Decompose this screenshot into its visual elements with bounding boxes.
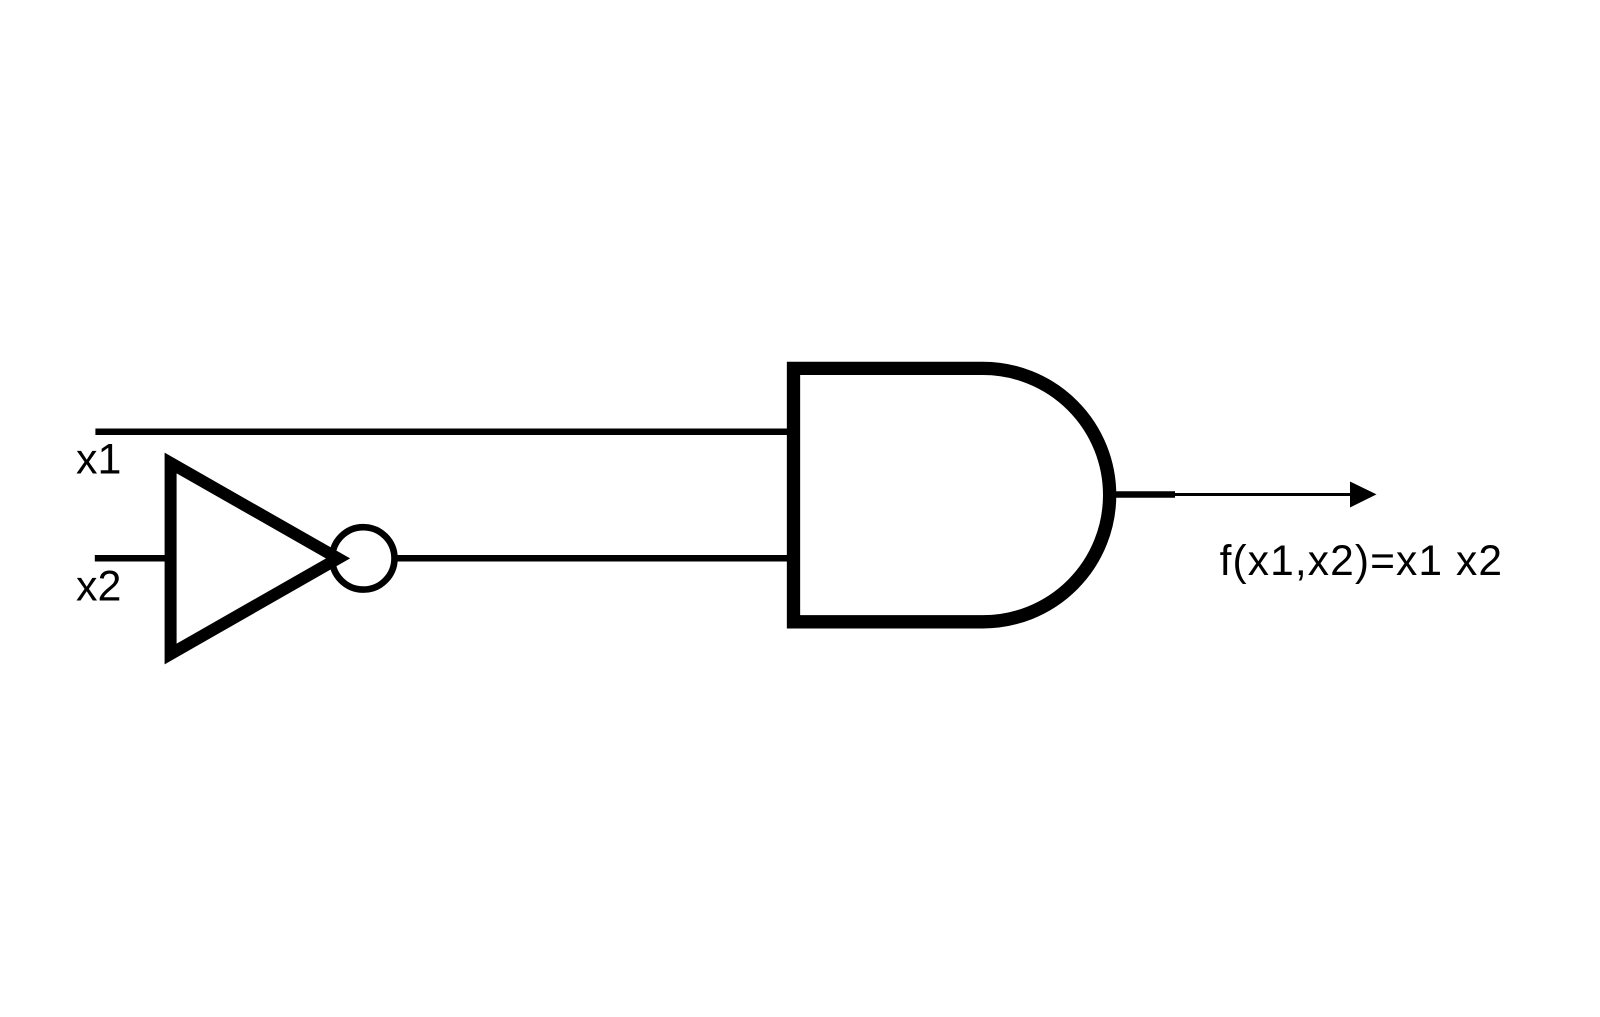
inverter U1 bubble xyxy=(332,527,394,589)
wire x2 input to NOT gate xyxy=(95,555,171,562)
wire x1 input to AND gate xyxy=(95,429,793,436)
wire AND output stub xyxy=(1116,491,1175,498)
wire output arrow shaft xyxy=(1175,493,1352,496)
inverter U1 triangle xyxy=(171,463,338,654)
svg-text:x2: x2 xyxy=(76,563,121,611)
output arrowhead xyxy=(1350,482,1377,508)
AND gate U2 xyxy=(794,368,1110,621)
svg-text:f(x1,x2)=x1 x2: f(x1,x2)=x1 x2 xyxy=(1220,538,1504,585)
svg-text:x1: x1 xyxy=(76,436,121,484)
wire NOT output to AND gate xyxy=(397,555,794,562)
